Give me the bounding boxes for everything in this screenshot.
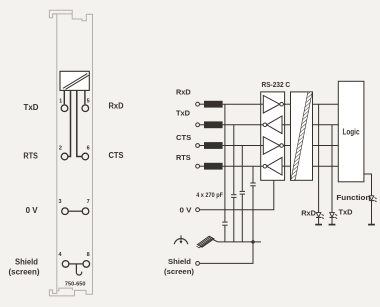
svg-text:2: 2 (59, 146, 62, 152)
svg-text:7: 7 (87, 199, 90, 205)
svg-text:0 V: 0 V (180, 206, 192, 215)
svg-text:TxD: TxD (24, 103, 39, 112)
svg-text:4 x 270 pF: 4 x 270 pF (196, 192, 223, 199)
svg-text:TxD: TxD (176, 108, 191, 117)
svg-text:6: 6 (87, 146, 90, 152)
svg-text:RxD: RxD (109, 102, 124, 111)
svg-text:CTS: CTS (176, 133, 191, 142)
svg-text:750-650: 750-650 (65, 281, 86, 287)
svg-text:RTS: RTS (23, 152, 38, 161)
svg-text:Shield: Shield (15, 258, 38, 267)
svg-text:3: 3 (58, 199, 61, 205)
svg-text:RxD: RxD (301, 209, 316, 218)
svg-text:8: 8 (87, 252, 90, 258)
svg-text:RTS: RTS (176, 153, 191, 162)
svg-text:TxD: TxD (339, 208, 354, 217)
svg-text:CTS: CTS (109, 151, 125, 160)
svg-text:RS-232 C: RS-232 C (262, 80, 291, 89)
svg-text:Function: Function (336, 193, 370, 202)
svg-text:(screen): (screen) (164, 267, 195, 276)
svg-text:Shield: Shield (168, 257, 191, 266)
svg-text:RxD: RxD (176, 87, 191, 96)
svg-text:(screen): (screen) (9, 268, 40, 277)
svg-text:5: 5 (87, 98, 90, 104)
svg-text:0 V: 0 V (26, 206, 39, 215)
svg-text:Logic: Logic (343, 127, 360, 136)
svg-text:1: 1 (59, 98, 62, 104)
